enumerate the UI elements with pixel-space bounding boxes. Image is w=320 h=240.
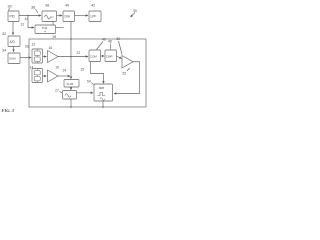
- svg-text:20: 20: [56, 66, 60, 70]
- block 34 (SUM): [8, 53, 20, 64]
- wire tap from wire22 down to DAC top: [91, 62, 104, 84]
- block 340 (input box T1): [8, 11, 19, 22]
- wire SUM to sensor box 12: [20, 57, 31, 59]
- wire box12 to amp 16: [43, 56, 47, 58]
- ref numeral 52 below comparator with leader: [123, 68, 130, 76]
- wire COM to CMP: [101, 55, 105, 57]
- enclosure box 28 (sensor module outline): [29, 39, 146, 107]
- wire amp20 output to bus: [58, 75, 70, 77]
- block CMP: [105, 50, 117, 62]
- svg-text:48: 48: [108, 40, 112, 44]
- wire SUM2 down to filter 27: [70, 87, 72, 90]
- wire CMP to comparator 50: [117, 56, 122, 59]
- svg-text:14: 14: [30, 66, 34, 70]
- wire DAC bottom to bottom bus: [102, 101, 104, 107]
- wire T1 output to T2: [19, 15, 41, 17]
- svg-text:42: 42: [91, 4, 95, 8]
- wire amp16 output to COM: [58, 56, 88, 58]
- sensor bridge box 14: [32, 69, 43, 83]
- ref numeral 54 with leader: [87, 80, 94, 85]
- svg-text:COM: COM: [90, 55, 98, 59]
- wire T3 to T4: [75, 15, 89, 17]
- svg-text:30: 30: [8, 5, 12, 9]
- wire T2 to T3: [57, 15, 63, 17]
- svg-text:34: 34: [2, 49, 6, 53]
- wire branch down from top wire to T5: [28, 16, 34, 28]
- node junction at x28 on top wire: [27, 15, 28, 16]
- svg-text:24: 24: [63, 69, 67, 73]
- node junction bus and enclosure top: [70, 38, 72, 40]
- ref numeral 50 with leader: [117, 37, 123, 55]
- svg-text:31: 31: [21, 23, 25, 27]
- svg-text:36: 36: [31, 6, 35, 10]
- svg-text:808: 808: [99, 86, 104, 90]
- ref numeral 27 with leader: [55, 89, 62, 93]
- svg-text:SUM: SUM: [9, 57, 16, 61]
- block 38 (waveform shaper T2): [42, 11, 57, 22]
- ref numeral 48 with leader: [108, 40, 112, 50]
- filter box 27 (wave symbol): [63, 91, 77, 100]
- svg-text:52: 52: [123, 72, 127, 76]
- svg-text:44: 44: [25, 17, 29, 21]
- block 42 (LPF T4): [89, 11, 101, 22]
- svg-text:26: 26: [53, 35, 57, 39]
- svg-text:D/A: D/A: [65, 15, 71, 19]
- svg-text:SUM: SUM: [67, 82, 74, 86]
- ref numeral 36 with leader: [31, 6, 38, 14]
- svg-text:LPF: LPF: [91, 15, 97, 19]
- wire comparator output right and down to DAC 808: [114, 62, 140, 94]
- svg-text:FIG. 3: FIG. 3: [2, 108, 15, 113]
- block 44 (bias box T5): [35, 25, 56, 34]
- svg-text:30: 30: [133, 9, 137, 13]
- comparator 50 (triangle): [122, 56, 133, 69]
- svg-text:22: 22: [77, 51, 81, 55]
- svg-text:4: 4: [44, 30, 46, 34]
- node junction DAC bottom bus: [102, 106, 104, 108]
- wire filter27 down to bottom bus: [70, 99, 72, 107]
- svg-text:50: 50: [117, 37, 121, 41]
- block 32 (A/D converter): [8, 36, 20, 47]
- wire A/D down to SUM: [13, 47, 15, 52]
- wire filter27 to DAC 808: [77, 92, 94, 94]
- overall circuit ref 300 with arrow: [131, 9, 138, 17]
- op-amp 20 (triangle): [48, 70, 59, 82]
- block 52 (SUM2): [64, 80, 79, 88]
- sensor bridge box 12: [32, 49, 43, 63]
- op-amp 16 (triangle): [48, 51, 59, 63]
- svg-text:PID: PID: [10, 15, 16, 19]
- svg-text:CMP: CMP: [106, 55, 113, 59]
- svg-text:46: 46: [102, 38, 106, 42]
- block 808 (DAC): [94, 84, 113, 101]
- svg-text:38: 38: [45, 4, 49, 8]
- svg-text:54: 54: [87, 80, 91, 84]
- svg-text:32: 32: [2, 32, 6, 36]
- ref numeral 30 with leader: [8, 5, 12, 11]
- wire T1 down to A/D: [12, 22, 14, 35]
- block COM: [89, 50, 101, 62]
- vertical bus from T3 down to SUM2: [70, 22, 72, 79]
- svg-text:28: 28: [25, 45, 29, 49]
- svg-text:A/D: A/D: [10, 40, 16, 44]
- wire box14 to amp 20: [43, 75, 47, 77]
- node junction filter bottom bus: [70, 106, 72, 108]
- wire connector T2 bottom to T5 top: [52, 22, 54, 26]
- wire T5 output stub: [56, 27, 64, 29]
- svg-text:12: 12: [32, 43, 36, 47]
- svg-text:40: 40: [65, 4, 69, 8]
- svg-text:16: 16: [49, 46, 53, 50]
- svg-text:27: 27: [55, 89, 59, 93]
- svg-text:25: 25: [81, 68, 85, 72]
- node junction bus x71 on wire22: [70, 56, 72, 58]
- block 40 (D/A T3): [63, 11, 75, 22]
- ref numeral 46 with leader: [97, 38, 106, 50]
